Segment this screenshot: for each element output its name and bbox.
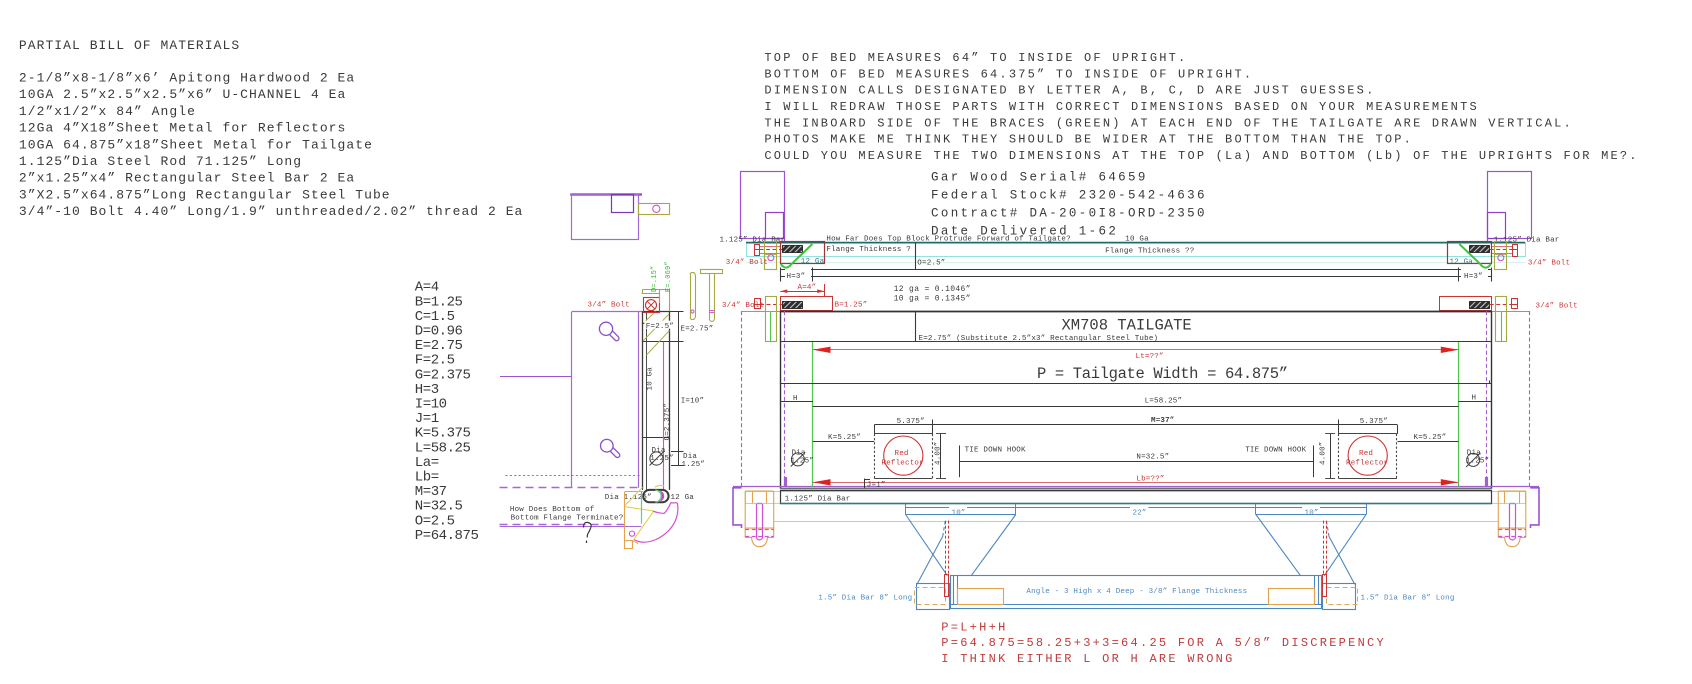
angle long box bbox=[950, 576, 1321, 609]
svg-text:4.00”: 4.00” bbox=[935, 441, 943, 465]
left bolt shank and tip row1 bbox=[754, 245, 782, 256]
A=4 red dimension bbox=[780, 284, 824, 296]
svg-text:Red: Red bbox=[895, 450, 909, 458]
keyhole bolt top bbox=[599, 322, 619, 341]
left foot box bbox=[917, 584, 950, 610]
svg-text:O=2.5: O=2.5 bbox=[415, 513, 455, 529]
row2 left bolt head hatched bbox=[783, 302, 803, 309]
left purple hinge bracket bbox=[733, 488, 742, 528]
right bolt shank and tip row1 bbox=[1490, 245, 1518, 257]
row2 right red box bbox=[1440, 297, 1492, 311]
svg-text:5.375”: 5.375” bbox=[1360, 418, 1388, 426]
right foot box bbox=[1323, 584, 1356, 610]
left reflector bbox=[874, 434, 932, 479]
svg-text:1.125”Dia Steel Rod 71.125” Lo: 1.125”Dia Steel Rod 71.125” Long bbox=[19, 154, 302, 169]
svg-text:A=4: A=4 bbox=[415, 280, 439, 296]
svg-text:Flange Thickness ??: Flange Thickness ?? bbox=[1105, 247, 1194, 255]
svg-text:TOP OF BED MEASURES 64” TO INS: TOP OF BED MEASURES 64” TO INSIDE OF UPR… bbox=[764, 51, 1187, 65]
svg-text:N=32.5: N=32.5 bbox=[415, 499, 463, 515]
body bottom edge bbox=[780, 488, 1491, 490]
top tube bottom line bbox=[780, 341, 1491, 343]
left 4.00 dim bbox=[940, 434, 942, 478]
left rail block: dark red box bbox=[781, 242, 825, 264]
svg-text:L=58.25”: L=58.25” bbox=[1145, 398, 1183, 406]
svg-text:E=2.75”: E=2.75” bbox=[681, 325, 714, 333]
svg-text:12 Ga: 12 Ga bbox=[801, 258, 825, 266]
right hinge orange body bbox=[1498, 491, 1526, 547]
left upright bbox=[741, 172, 785, 243]
left red pin bbox=[945, 575, 949, 597]
top rail cyan channel bbox=[747, 244, 1526, 257]
teal underline of bar bbox=[780, 503, 1491, 505]
svg-text:10GA 2.5”x2.5”x2.5”x6” U-CHANN: 10GA 2.5”x2.5”x2.5”x6” U-CHANNEL 4 Ea bbox=[19, 87, 347, 102]
svg-text:H: H bbox=[793, 395, 798, 403]
svg-text:22”: 22” bbox=[1133, 509, 1147, 517]
svg-text:XM708 TAILGATE: XM708 TAILGATE bbox=[1062, 317, 1192, 335]
svg-text:E=2.75” (Substitute 2.5”x3” Re: E=2.75” (Substitute 2.5”x3” Rectangular … bbox=[919, 335, 1159, 343]
right rail block: dark red box bbox=[1448, 242, 1492, 264]
right reflector bbox=[1338, 434, 1397, 479]
tie down hook leaders and N dim bbox=[959, 446, 1313, 478]
svg-text:10”: 10” bbox=[1305, 509, 1319, 517]
left nut circle row1 bbox=[768, 255, 774, 261]
row2 left red box bbox=[781, 297, 833, 311]
channel hatch olive bbox=[644, 312, 670, 356]
svg-text:Federal Stock# 2320-542-4636: Federal Stock# 2320-542-4636 bbox=[931, 189, 1207, 203]
svg-text:J=1: J=1 bbox=[415, 411, 439, 427]
green brace inboard lines bbox=[812, 342, 814, 487]
svg-text:H=3: H=3 bbox=[415, 382, 439, 398]
svg-text:BOTTOM OF BED MEASURES 64.375”: BOTTOM OF BED MEASURES 64.375” TO INSIDE… bbox=[764, 67, 1253, 81]
svg-text:4.00”: 4.00” bbox=[1320, 441, 1328, 465]
svg-text:E=2.75: E=2.75 bbox=[415, 338, 463, 354]
left funnel brace bbox=[906, 515, 1016, 585]
svg-text:Reflector: Reflector bbox=[882, 460, 924, 468]
svg-text:10 Ga: 10 Ga bbox=[647, 367, 655, 391]
svg-text:THE INBOARD SIDE OF THE BRACES: THE INBOARD SIDE OF THE BRACES (GREEN) A… bbox=[764, 116, 1573, 130]
question mark squiggle bbox=[584, 522, 592, 537]
svg-text:K=5.375: K=5.375 bbox=[415, 426, 471, 442]
svg-text:1.125” Dia Bar: 1.125” Dia Bar bbox=[785, 496, 851, 504]
svg-text:F=2.5: F=2.5 bbox=[415, 353, 455, 369]
svg-text:K=5.25”: K=5.25” bbox=[828, 434, 861, 442]
svg-text:I=10: I=10 bbox=[415, 397, 447, 413]
right purple hinge bracket bbox=[1530, 488, 1539, 528]
svg-text:Angle - 3 High x 4 Deep - 3/8”: Angle - 3 High x 4 Deep - 3/8” Flange Th… bbox=[1026, 588, 1247, 596]
svg-text:3/4” Bolt: 3/4” Bolt bbox=[722, 302, 764, 310]
rail divider O=2.5 bbox=[915, 242, 917, 269]
red bolt head on channel bbox=[644, 298, 660, 313]
dimension stack right of channel bbox=[670, 312, 684, 466]
top block assembly purple bbox=[570, 193, 642, 195]
svg-text:Lt=??”: Lt=??” bbox=[1136, 353, 1164, 361]
magenta mid line bbox=[663, 342, 665, 490]
svg-text:C=1.5: C=1.5 bbox=[415, 309, 455, 325]
right green brace check bbox=[1459, 244, 1491, 268]
svg-text:G=2.375: G=2.375 bbox=[415, 367, 471, 383]
svg-text:P=64.875: P=64.875 bbox=[415, 528, 479, 544]
Lb red dimension bbox=[813, 479, 1459, 485]
keyhole bolt bottom bbox=[601, 439, 620, 457]
svg-text:P=64.875=58.25+3+3=64.25 FOR A: P=64.875=58.25+3+3=64.25 FOR A 5/8” DISC… bbox=[941, 636, 1386, 650]
right hinge slot magenta bbox=[1498, 504, 1526, 540]
svg-text:COULD YOU MEASURE THE TWO DIME: COULD YOU MEASURE THE TWO DIMENSIONS AT … bbox=[764, 149, 1638, 163]
svg-text:12 Ga: 12 Ga bbox=[1450, 259, 1474, 267]
svg-text:10 ga = 0.1345”: 10 ga = 0.1345” bbox=[894, 295, 971, 304]
right foot orange dashed bbox=[1327, 588, 1358, 605]
svg-text:La=: La= bbox=[415, 455, 439, 471]
svg-text:Dia 1.125”: Dia 1.125” bbox=[605, 494, 652, 502]
bottom rod bar black box bbox=[781, 491, 1492, 504]
svg-text:M=37”: M=37” bbox=[1151, 417, 1175, 425]
H dimensions at L row bbox=[780, 402, 1491, 407]
left hinge orange body bbox=[745, 491, 774, 547]
Lt red dimension bbox=[813, 347, 1459, 353]
svg-text:Gar Wood Serial# 64659: Gar Wood Serial# 64659 bbox=[931, 171, 1148, 185]
svg-text:Contract# DA-20-0I8-ORD-2350: Contract# DA-20-0I8-ORD-2350 bbox=[931, 207, 1207, 221]
left foot orange dashed bbox=[915, 588, 946, 605]
svg-text:How Far Does Top Block Protrud: How Far Does Top Block Protrude Forward … bbox=[826, 236, 1070, 244]
right bolt head hatched bbox=[1470, 246, 1490, 253]
svg-text:3/4” Bolt: 3/4” Bolt bbox=[588, 302, 630, 310]
svg-text:K=5.25”: K=5.25” bbox=[1414, 434, 1447, 442]
svg-text:P = Tailgate Width = 64.875”: P = Tailgate Width = 64.875” bbox=[1037, 365, 1288, 383]
svg-text:1/2”x1/2”x 84” Angle: 1/2”x1/2”x 84” Angle bbox=[19, 104, 196, 119]
svg-text:I=10”: I=10” bbox=[681, 398, 705, 406]
svg-text:2”x1.25”x4” Rectangular Steel: 2”x1.25”x4” Rectangular Steel Bar 2 Ea bbox=[19, 171, 355, 186]
right red pin bbox=[1323, 575, 1327, 597]
svg-text:O=2.5”: O=2.5” bbox=[917, 260, 945, 268]
svg-text:1.5” Dia Bar 8” Long: 1.5” Dia Bar 8” Long bbox=[818, 595, 912, 603]
svg-text:D=.15”: D=.15” bbox=[651, 266, 659, 292]
purple dash terminals bbox=[784, 477, 787, 487]
bed floor lines bbox=[780, 268, 1491, 282]
row2 right sleeve extending into tailgate bbox=[1496, 297, 1507, 342]
right nut circle row1 bbox=[1498, 255, 1504, 261]
J=1 label bbox=[864, 479, 866, 489]
long cyan line below bar bbox=[774, 521, 1499, 523]
yellow flange lines bbox=[625, 485, 664, 539]
pill green arc bbox=[655, 490, 661, 502]
svg-text:Lb=??”: Lb=??” bbox=[1136, 476, 1164, 484]
svg-text:5.375”: 5.375” bbox=[897, 418, 925, 426]
svg-text:E=.069”: E=.069” bbox=[665, 261, 673, 292]
svg-text:I THINK EITHER L OR H ARE WRON: I THINK EITHER L OR H ARE WRONG bbox=[941, 652, 1234, 666]
olive T bolt bbox=[701, 270, 723, 322]
olive pin bolt bbox=[690, 272, 696, 319]
green edge line bbox=[641, 491, 643, 523]
purple dashed verticals bbox=[742, 311, 1530, 487]
svg-text:10 Ga: 10 Ga bbox=[1125, 236, 1149, 244]
svg-text:DIMENSION CALLS DESIGNATED BY: DIMENSION CALLS DESIGNATED BY LETTER A, … bbox=[764, 84, 1375, 98]
right 4.00 dim bbox=[1330, 434, 1332, 478]
svg-text:M=37: M=37 bbox=[415, 484, 447, 500]
svg-text:PHOTOS MAKE ME THINK THEY SHOU: PHOTOS MAKE ME THINK THEY SHOULD BE WIDE… bbox=[764, 133, 1413, 147]
G leader purple line bbox=[500, 376, 572, 378]
svg-text:1.5” Dia Bar 8” Long: 1.5” Dia Bar 8” Long bbox=[1361, 595, 1455, 603]
svg-text:TIE DOWN HOOK: TIE DOWN HOOK bbox=[965, 446, 1026, 454]
svg-text:Bottom Flange Terminate?: Bottom Flange Terminate? bbox=[511, 515, 624, 523]
svg-text:N=32.5”: N=32.5” bbox=[1136, 454, 1169, 462]
svg-text:H=3”: H=3” bbox=[1464, 273, 1483, 281]
M line with 5.375 extents bbox=[874, 420, 1397, 434]
left bolt head hatched bbox=[783, 246, 803, 253]
svg-text:12 ga = 0.1046”: 12 ga = 0.1046” bbox=[894, 285, 971, 294]
right funnel brace bbox=[1256, 515, 1366, 585]
left green brace check bbox=[781, 244, 813, 268]
svg-text:D=0.96: D=0.96 bbox=[415, 324, 463, 340]
row2 left sleeve extending into tailgate bbox=[766, 297, 777, 342]
olive bracket above channel bbox=[642, 290, 670, 312]
row2 left bolt tip bbox=[754, 299, 782, 309]
svg-text:How Does Bottom of: How Does Bottom of bbox=[510, 506, 595, 514]
svg-text:Lb=: Lb= bbox=[415, 470, 439, 486]
svg-text:Dia: Dia bbox=[683, 453, 697, 461]
top rail teal top line bbox=[746, 242, 1525, 244]
line under P bbox=[780, 383, 1491, 385]
svg-text:Red: Red bbox=[1359, 450, 1373, 458]
right upright bbox=[1488, 172, 1532, 243]
svg-text:2-1/8”x8-1/8”x6’ Apitong Hardw: 2-1/8”x8-1/8”x6’ Apitong Hardwood 2 Ea bbox=[19, 71, 355, 86]
orange flange piece bbox=[625, 492, 644, 549]
magenta flange curve bbox=[634, 503, 678, 542]
svg-text:3”X2.5”x64.875”Long Rectangula: 3”X2.5”x64.875”Long Rectangular Steel Tu… bbox=[19, 187, 391, 202]
F=2.5 label bbox=[644, 321, 672, 329]
svg-text:12 Ga: 12 Ga bbox=[671, 494, 695, 502]
svg-text:F=2.5”: F=2.5” bbox=[646, 323, 674, 331]
K dimensions bbox=[813, 441, 874, 443]
purple link lines at top corners bbox=[742, 311, 781, 313]
left hinge slot magenta bbox=[745, 504, 774, 540]
svg-text:Reflector: Reflector bbox=[1346, 460, 1388, 468]
svg-text:B=1.25”: B=1.25” bbox=[835, 302, 868, 310]
brace dimension row 10/22/10 bbox=[906, 504, 1367, 515]
svg-text:H=3”: H=3” bbox=[787, 273, 806, 281]
wood plank purple rectangle bbox=[500, 312, 643, 527]
bottom rod bar cyan outer bbox=[746, 492, 1526, 504]
svg-text:H: H bbox=[1472, 395, 1477, 403]
svg-text:L=58.25: L=58.25 bbox=[415, 440, 471, 456]
row2 right bolt head hatched bbox=[1470, 302, 1490, 309]
upright channel black bbox=[643, 311, 670, 490]
svg-text:1.25”: 1.25” bbox=[682, 461, 706, 469]
bottom hook pill bbox=[643, 490, 668, 502]
svg-text:10GA 64.875”x18”Sheet Metal fo: 10GA 64.875”x18”Sheet Metal for Tailgate bbox=[19, 137, 373, 152]
svg-text:TIE DOWN HOOK: TIE DOWN HOOK bbox=[1245, 446, 1306, 454]
body outline bbox=[780, 311, 1491, 489]
pill magenta crescent bbox=[660, 490, 665, 501]
svg-text:3/4” Bolt: 3/4” Bolt bbox=[1536, 303, 1578, 311]
svg-text:3/4” Bolt: 3/4” Bolt bbox=[726, 259, 768, 267]
svg-text:3/4” Bolt: 3/4” Bolt bbox=[1528, 260, 1570, 268]
H=3 labels on bed lines bbox=[785, 269, 811, 278]
svg-text:P=L+H+H: P=L+H+H bbox=[941, 621, 1007, 635]
svg-text:12Ga 4”X18”Sheet Metal for Ref: 12Ga 4”X18”Sheet Metal for Reflectors bbox=[19, 121, 347, 136]
svg-text:Flange Thickness ?: Flange Thickness ? bbox=[826, 246, 911, 254]
orange plates in angle bbox=[958, 589, 1004, 605]
left washer sleeve row1 bbox=[765, 242, 777, 270]
magenta rivet circle bbox=[629, 531, 634, 536]
svg-text:B=1.25: B=1.25 bbox=[415, 294, 463, 310]
top block divider bbox=[915, 311, 917, 342]
svg-text:I WILL REDRAW THOSE PARTS WITH: I WILL REDRAW THOSE PARTS WITH CORRECT D… bbox=[764, 100, 1479, 114]
top block olive tab bbox=[639, 204, 670, 215]
svg-text:G=2.375”: G=2.375” bbox=[664, 403, 672, 441]
svg-text:3/4”-10 Bolt 4.40” Long/1.9” u: 3/4”-10 Bolt 4.40” Long/1.9” unthreaded/… bbox=[19, 204, 524, 219]
svg-text:PARTIAL BILL OF MATERIALS: PARTIAL BILL OF MATERIALS bbox=[19, 38, 240, 53]
svg-text:A=4”: A=4” bbox=[798, 284, 817, 292]
svg-text:10”: 10” bbox=[952, 509, 966, 517]
row2 right bolt tip bbox=[1490, 299, 1518, 309]
svg-text:J=1”: J=1” bbox=[867, 482, 886, 490]
purple plank bottom line bbox=[733, 486, 1539, 488]
right washer sleeve row1 bbox=[1495, 242, 1507, 270]
